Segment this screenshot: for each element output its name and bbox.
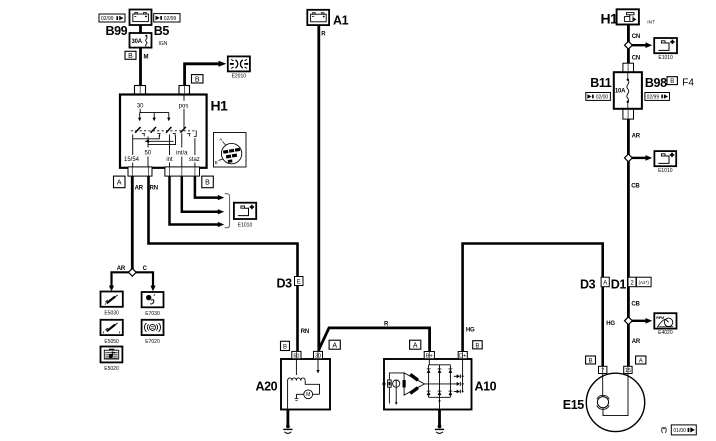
junction D1 on CB wire [611, 277, 651, 292]
svg-text:E5030: E5030 [104, 311, 119, 317]
svg-text:A1: A1 [333, 13, 349, 27]
svg-text:CN: CN [632, 55, 640, 61]
rectifier columns [428, 359, 430, 365]
svg-text:30: 30 [137, 103, 144, 109]
connector B of A20 [281, 341, 290, 350]
svg-text:CB: CB [631, 184, 640, 190]
horn E7020 [142, 320, 164, 335]
connector B of H1 [202, 176, 214, 188]
svg-text:30A: 30A [132, 39, 143, 45]
pin 50 tab [292, 351, 301, 359]
svg-text:(*): (*) [661, 428, 667, 434]
svg-text:RN: RN [150, 186, 158, 192]
motor E15 [586, 373, 644, 431]
svg-text:50: 50 [144, 151, 151, 157]
svg-text:E7030: E7030 [145, 311, 160, 317]
switch blades [135, 127, 140, 133]
svg-text:B: B [475, 343, 479, 349]
svg-text:02/99: 02/99 [164, 16, 177, 22]
rev counter E4020 [654, 313, 676, 328]
svg-text:E: E [297, 280, 301, 286]
field diodes [457, 374, 460, 393]
arrow to E1010 (mid right) [632, 157, 647, 159]
wire AR to E15 term 15 [627, 324, 630, 366]
svg-text:M: M [144, 55, 149, 61]
svg-text:B: B [205, 180, 210, 187]
page ref 02/99 (B98) [645, 93, 670, 101]
svg-text:D3: D3 [277, 276, 293, 290]
svg-text:02/99: 02/99 [647, 94, 660, 100]
node diamond AR/CB [625, 154, 633, 162]
internal links [133, 135, 160, 139]
pin 15 tab [624, 366, 632, 374]
svg-text:B98: B98 [645, 76, 667, 90]
svg-text:B11: B11 [590, 76, 611, 90]
node diamond [128, 268, 136, 276]
pin 7 tab [599, 366, 607, 374]
svg-text:M: M [306, 392, 310, 398]
pin 30 tab [314, 351, 323, 359]
wire R from A1 to A20 term 30 [317, 25, 320, 352]
battery B99 [130, 10, 152, 26]
internal bus from 30 [140, 112, 169, 114]
svg-text:15/54: 15/54 [124, 157, 140, 163]
svg-text:A: A [219, 137, 222, 142]
svg-text:B: B [670, 79, 674, 85]
svg-text:CB: CB [631, 301, 640, 307]
connector A of E15 [636, 356, 646, 365]
svg-text:E1010: E1010 [658, 55, 673, 61]
svg-text:A: A [117, 180, 122, 187]
output columns [132, 135, 134, 156]
svg-text:int/a: int/a [176, 151, 188, 157]
svg-text:B: B [215, 160, 218, 165]
H1 bottom tab B side [165, 167, 200, 176]
fuse B11 10A [614, 72, 642, 109]
wire M (fuse B5 to H1 terminal 30) [139, 47, 142, 87]
connector A of A10 [410, 340, 421, 349]
svg-text:RN: RN [301, 329, 309, 335]
svg-text:E2010: E2010 [232, 73, 247, 79]
svg-text:B99: B99 [106, 24, 128, 38]
svg-text:A: A [332, 342, 337, 349]
cigar lighter E5050 [101, 320, 123, 335]
svg-text:RPM: RPM [656, 316, 664, 320]
cigar lighter E5030 [101, 292, 123, 307]
svg-text:CN: CN [632, 34, 640, 40]
pin D+ tab [458, 352, 467, 360]
page ref 01/00 (*) [661, 425, 696, 435]
connector B (pos feed) [192, 75, 204, 84]
svg-text:AR: AR [632, 134, 641, 140]
svg-text:A20: A20 [256, 379, 278, 393]
svg-text:H1: H1 [601, 10, 619, 26]
page ref 02/00 (B11) [586, 93, 611, 101]
branch to E7030 [136, 272, 153, 286]
svg-text:B: B [588, 359, 592, 365]
wire AR from H1 [131, 176, 134, 269]
wire battery B99 to fuse B5 [139, 24, 142, 34]
H1 bottom tab A side [128, 167, 152, 176]
battery positive E1010 (upper right) [654, 38, 677, 53]
ground below A10 [435, 410, 444, 434]
connector B of A10 [473, 341, 483, 350]
connector A of A20 [329, 340, 340, 349]
radio E5020 [101, 347, 123, 363]
svg-text:E4020: E4020 [658, 330, 673, 336]
fuse B5 30A [130, 33, 152, 48]
wire AR (below fuse) [627, 119, 630, 155]
battery positive E1010 (mid right) [654, 151, 676, 166]
wire CN lower [627, 49, 630, 64]
arrow to E1010 (upper) [632, 44, 647, 46]
exterior lights E2010 [228, 56, 250, 71]
pin B+ tab [424, 352, 434, 360]
connector A of H1 [114, 176, 126, 188]
battery positive E1010 (left) [234, 203, 256, 219]
svg-text:D3: D3 [580, 278, 596, 292]
svg-text:AR: AR [135, 186, 144, 192]
bracket [225, 194, 230, 228]
svg-text:02/00: 02/00 [596, 94, 609, 100]
svg-text:D1: D1 [611, 278, 627, 292]
H1 terminal tab pos [179, 86, 190, 95]
svg-text:E7020: E7020 [145, 339, 160, 345]
ground below A20 [283, 410, 292, 434]
node diamond CN [625, 41, 633, 49]
wire HG from A10 D+ to E15 term 7 [463, 244, 603, 367]
wire R branch to A10 B+ [319, 328, 430, 352]
svg-text:int: int [166, 157, 173, 163]
wire pos to E2010 (arrow) [185, 64, 220, 87]
svg-text:IGN: IGN [159, 41, 168, 47]
svg-text:H1: H1 [211, 98, 229, 114]
accessory E7030 [142, 292, 164, 307]
arrow to E4020 [632, 320, 647, 322]
node diamond CB/AR [625, 317, 633, 325]
svg-text:B: B [283, 345, 287, 351]
H1 connector detail view [214, 133, 247, 168]
fuse B11 tabs [623, 63, 634, 72]
svg-text:10A: 10A [615, 88, 626, 94]
svg-text:E1010: E1010 [238, 222, 253, 228]
svg-text:B5: B5 [154, 24, 170, 38]
ignition switch H1 (key symbol) [617, 9, 639, 24]
svg-text:01/00: 01/00 [673, 428, 686, 434]
svg-text:F4: F4 [682, 77, 694, 88]
connector B of E15 [586, 356, 596, 365]
svg-text:E5020: E5020 [104, 366, 119, 372]
svg-text:A: A [603, 281, 607, 287]
svg-text:(A2*): (A2*) [638, 280, 649, 285]
page ref 02/99 left [99, 14, 125, 22]
branch to E5030 [112, 272, 130, 286]
svg-text:AR: AR [632, 339, 641, 345]
svg-text:E5050: E5050 [104, 339, 119, 345]
wire CB [627, 162, 630, 318]
junction D3 on RN wire [277, 276, 304, 290]
starter motor A20 [281, 359, 330, 410]
svg-text:staz: staz [189, 157, 200, 163]
wire RN from H1 to A20 term 50 [149, 176, 298, 352]
svg-text:INT: INT [647, 19, 655, 25]
H1 terminal tab 30 [135, 86, 146, 95]
connector B (battery feed) [125, 51, 136, 60]
ignition switch H1 [120, 95, 207, 168]
svg-text:E1010: E1010 [658, 168, 673, 174]
svg-text:A: A [639, 359, 643, 365]
svg-text:A10: A10 [475, 379, 497, 393]
svg-text:E15: E15 [563, 398, 584, 412]
junction D3 on HG wire [580, 277, 609, 292]
wire stubs through terminal tabs [132, 64, 628, 374]
wires H1 B to E1010 [170, 176, 219, 224]
wire CN upper [627, 25, 630, 43]
page ref 02/99 right [154, 14, 180, 22]
battery A1 [307, 10, 329, 25]
svg-text:A: A [413, 342, 418, 349]
svg-text:02/99: 02/99 [101, 16, 114, 22]
alternator A10 [382, 359, 471, 410]
svg-text:HG: HG [466, 327, 475, 333]
svg-text:AR: AR [117, 266, 126, 272]
svg-text:B: B [128, 53, 133, 60]
svg-text:B: B [195, 76, 200, 83]
svg-text:HG: HG [606, 321, 615, 327]
svg-text:pos: pos [179, 103, 189, 109]
connector B of B98 [667, 77, 677, 86]
